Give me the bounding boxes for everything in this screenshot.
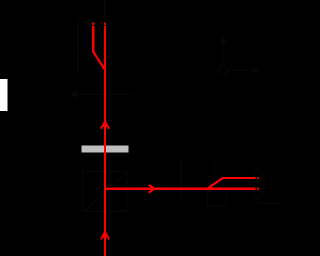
unlit signal (top right, circle with right stem) — [101, 19, 112, 25]
red diagonal up to loop line — [207, 178, 222, 189]
red route: left branch vertical — [92, 26, 94, 53]
red route: left branch dash at top — [92, 23, 94, 25]
red route: upper loop horizontal line — [222, 177, 256, 179]
red up arrow on main line (upper) — [101, 119, 110, 129]
red right arrow on horizontal line — [148, 185, 156, 193]
unlit signal (top left, circle with left stem) — [83, 19, 93, 25]
red route: left branch diagonal merging to main line — [93, 52, 105, 70]
unlit vertical track at left of station throat — [78, 18, 79, 73]
unlit signal at end of upper line (circle, stem up) — [253, 164, 263, 181]
level crossing gray bar (platform-style) — [81, 146, 128, 153]
white rectangle at left edge — [0, 79, 8, 111]
unlit track continuation above signals (dark) — [104, 0, 106, 18]
red dash at end of upper loop line — [257, 177, 259, 179]
red up arrow on main line (lower) — [101, 230, 110, 240]
red dash at end of main horizontal — [257, 188, 259, 190]
unlit signal at end of lower line (circle, stem down) + exit track — [253, 187, 282, 204]
unlit route, top right: vertical with up arrow, signal circle, horizontal with right arrow — [219, 40, 256, 74]
unlit short verticals mid right — [181, 158, 182, 198]
red route: main vertical dash at top — [104, 23, 106, 25]
red route: main vertical line — [104, 26, 106, 256]
unlit box with diagonal (level crossing area around junction) — [83, 172, 127, 212]
red route: main horizontal line — [104, 188, 256, 190]
unlit shunt route arrow (left pointing) with line at y=94.5 — [71, 92, 133, 98]
unlit box lower right below horizontal line — [207, 190, 226, 206]
